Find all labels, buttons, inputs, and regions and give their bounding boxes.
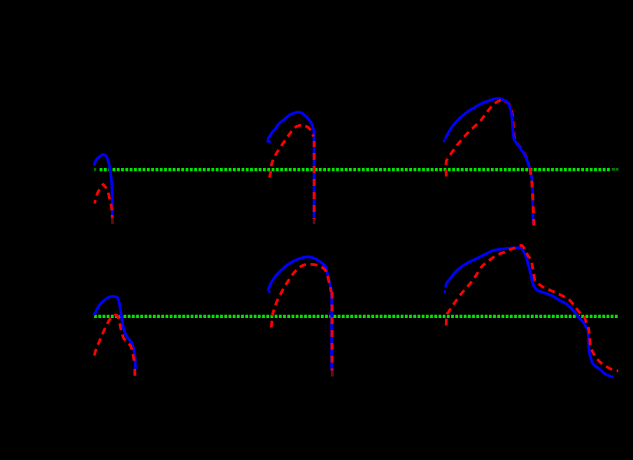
bottom panel outburst 2: blue solid light curve — [268, 257, 331, 369]
top panel outburst 3: red dashed descent (under blue) — [505, 101, 529, 166]
bottom outburst 1: red drop end segment — [133, 369, 136, 376]
top panel outburst 3: blue solid light curve — [446, 98, 533, 223]
bottom panel outburst 2: red dashed light curve — [271, 264, 331, 327]
top outburst 2: red dashed drop segment — [313, 141, 316, 219]
dark red tip, top outburst 2 drop — [313, 219, 316, 224]
top panel outburst 3: blue start dot — [443, 139, 445, 142]
bottom panel outburst 2: blue start dot — [268, 290, 271, 293]
dark red tip, top outburst 1 drop — [111, 219, 114, 224]
top panel outburst 1: red dashed light curve — [95, 184, 113, 218]
bottom panel outburst 1: red dashed light curve — [94, 315, 134, 363]
top panel quiescence baseline: dim lead-in dash — [94, 168, 96, 171]
top outburst 3: red dashed drop segment — [530, 168, 534, 225]
top panel outburst 3: red dashed rise light curve — [446, 100, 503, 177]
top panel baseline dim end dashes — [612, 168, 619, 171]
dark red tip, bottom outburst 2 drop — [331, 371, 334, 377]
top panel quiescence baseline (green dotted) — [100, 168, 610, 171]
bottom panel outburst 3: blue solid light curve — [446, 248, 613, 377]
bottom panel outburst 1: blue solid light curve — [94, 296, 135, 368]
bottom outburst 2: red dashed drop segment — [331, 292, 334, 371]
top panel outburst 2: red dashed light curve — [270, 125, 314, 177]
bottom panel outburst 3: blue start dot — [444, 290, 447, 293]
top panel outburst 2: blue start dot — [268, 140, 271, 143]
bottom panel quiescence baseline (green dotted) — [94, 315, 619, 318]
top panel outburst 1: blue solid light curve — [94, 155, 112, 218]
bottom panel outburst 3: red dashed light curve — [446, 245, 618, 371]
top panel outburst 2: blue solid light curve — [268, 112, 314, 216]
